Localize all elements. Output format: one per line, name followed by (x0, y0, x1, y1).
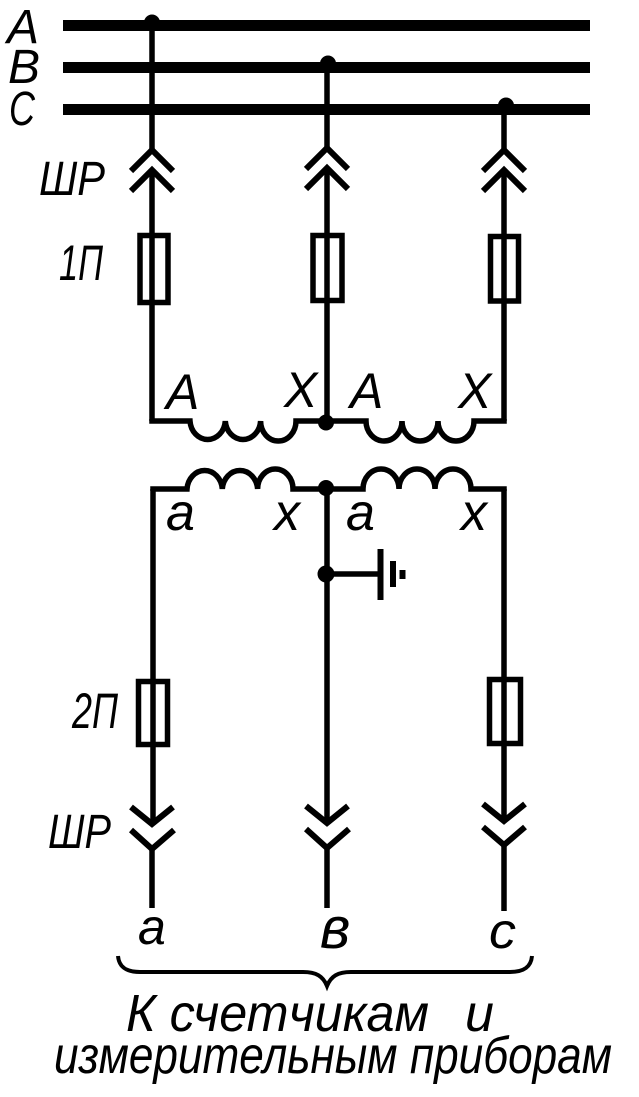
fuse 2П right (490, 680, 521, 744)
wire: disconnector to primary winding (right column) (501, 170, 507, 421)
svg-text:измерительным приборам: измерительным приборам (54, 1027, 612, 1085)
svg-text:х: х (458, 484, 489, 542)
wire: disconnector to primary winding through fuse (left column) (149, 170, 155, 421)
bus C (63, 104, 590, 115)
wire: terminal stub a (149, 849, 155, 908)
wire: secondary right lead down through fuse (501, 489, 507, 821)
wire: secondary mid down to bottom disconnector (324, 489, 330, 823)
disconnector ШР bottom-middle (upper chevron) (306, 806, 348, 823)
svg-text:а: а (138, 899, 166, 955)
disconnector ШР right (upper chevron) (483, 150, 525, 171)
disconnector ШР middle (lower chevron) (306, 168, 348, 189)
brace: grouping of secondary terminals (118, 956, 532, 986)
ground electrode (long bar) (378, 549, 384, 600)
node: tap of phase C on bus C (498, 98, 514, 114)
svg-text:в: в (320, 896, 350, 961)
ground electrode (short bar) (400, 570, 406, 579)
node: tap of phase A on bus A (144, 15, 160, 31)
disconnector ШР middle (upper chevron) (306, 148, 348, 169)
node: secondary mid junction (318, 480, 334, 496)
svg-text:С: С (9, 83, 35, 136)
svg-text:1П: 1П (59, 235, 104, 291)
disconnector ШР left (upper chevron) (131, 150, 173, 171)
svg-text:х: х (271, 484, 302, 542)
wire: secondary left lead down through fuse 2П (150, 489, 156, 824)
wire: terminal stub в (324, 848, 330, 908)
wire: ground branch (326, 571, 378, 577)
node: tap of phase B on bus B (320, 56, 336, 72)
disconnector ШР bottom-left (upper chevron) (131, 807, 173, 824)
primary winding A-X (left transformer) (152, 419, 327, 441)
secondary winding a-x (left transformer) (153, 469, 327, 491)
bus B (63, 62, 590, 73)
wire: bus B down to disconnector (middle column) (324, 68, 330, 149)
svg-text:А: А (347, 363, 383, 419)
svg-text:Х: Х (283, 362, 319, 418)
svg-text:ШР: ШР (48, 806, 111, 859)
secondary winding a-x (right transformer) (327, 469, 504, 491)
disconnector ШР bottom-middle (lower chevron) (306, 829, 349, 848)
node: ground tap junction (318, 566, 335, 583)
svg-text:а: а (166, 484, 195, 542)
wire: disconnector to primary junction (middle column) (324, 168, 330, 421)
svg-text:2П: 2П (71, 683, 118, 739)
fuse 1П left (140, 236, 168, 303)
svg-text:Х: Х (457, 363, 493, 419)
wire: bus A down to disconnector ШР (left column) (149, 25, 155, 151)
disconnector ШР bottom-right (upper chevron) (483, 804, 525, 821)
fuse 1П middle (313, 236, 342, 301)
svg-text:ШР: ШР (39, 153, 105, 206)
disconnector ШР bottom-right (lower chevron) (483, 827, 525, 845)
fuse 2П left (139, 682, 168, 745)
bus A (63, 20, 590, 31)
disconnector ШР right (lower chevron) (483, 170, 525, 191)
svg-text:с: с (489, 903, 516, 959)
disconnector ШР bottom-left (lower chevron) (131, 830, 174, 849)
fuse 1П right (491, 237, 519, 302)
ground electrode (middle bar) (390, 561, 396, 587)
primary winding A-X (right transformer) (327, 419, 504, 441)
svg-text:а: а (346, 484, 375, 542)
wire: terminal stub c (501, 845, 507, 911)
disconnector ШР left (lower chevron) (131, 170, 173, 191)
node: primary mid junction (318, 415, 334, 431)
svg-text:А: А (163, 364, 199, 420)
wire: bus C down to disconnector (right column) (501, 109, 507, 151)
